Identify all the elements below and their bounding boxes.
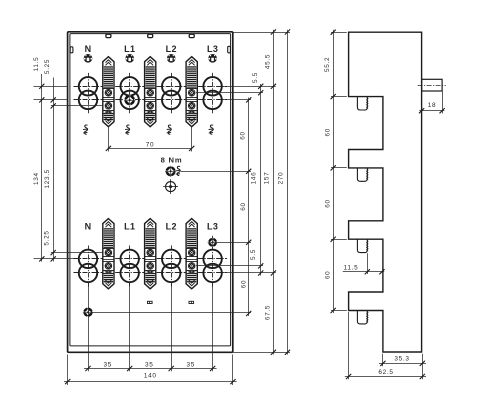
svg-text:60: 60 xyxy=(240,280,247,289)
svg-text:L1: L1 xyxy=(124,222,135,232)
svg-text:5.25: 5.25 xyxy=(44,230,51,245)
svg-text:67.5: 67.5 xyxy=(264,305,271,320)
svg-text:L3: L3 xyxy=(207,222,218,232)
svg-text:5.5: 5.5 xyxy=(252,72,259,83)
svg-text:35.3: 35.3 xyxy=(394,355,409,362)
svg-text:123.5: 123.5 xyxy=(44,169,51,189)
svg-text:L3: L3 xyxy=(207,44,218,54)
svg-text:35: 35 xyxy=(187,361,196,368)
svg-text:134: 134 xyxy=(33,172,40,185)
svg-text:11.5: 11.5 xyxy=(33,57,40,72)
svg-text:270: 270 xyxy=(277,172,284,185)
svg-text:8 Nm: 8 Nm xyxy=(161,156,183,165)
svg-text:146: 146 xyxy=(251,172,258,185)
svg-text:140: 140 xyxy=(144,373,157,380)
svg-text:60: 60 xyxy=(240,202,247,211)
svg-text:35: 35 xyxy=(103,361,112,368)
svg-text:157: 157 xyxy=(264,172,271,185)
svg-text:18: 18 xyxy=(428,102,437,109)
svg-text:60: 60 xyxy=(325,271,332,280)
svg-text:60: 60 xyxy=(325,128,332,137)
svg-text:60: 60 xyxy=(239,131,246,140)
svg-text:45.5: 45.5 xyxy=(265,54,272,69)
svg-text:35: 35 xyxy=(145,361,154,368)
svg-text:62.5: 62.5 xyxy=(378,369,393,376)
svg-text:N: N xyxy=(85,222,92,232)
svg-text:L2: L2 xyxy=(166,44,177,54)
svg-text:N: N xyxy=(85,44,92,54)
svg-text:70: 70 xyxy=(146,141,155,148)
svg-text:11.5: 11.5 xyxy=(344,264,359,271)
svg-text:5.5: 5.5 xyxy=(250,249,257,260)
svg-text:5.25: 5.25 xyxy=(44,59,51,74)
svg-text:55.2: 55.2 xyxy=(324,57,331,72)
svg-text:L2: L2 xyxy=(166,222,177,232)
svg-text:60: 60 xyxy=(325,199,332,208)
svg-text:L1: L1 xyxy=(124,44,135,54)
